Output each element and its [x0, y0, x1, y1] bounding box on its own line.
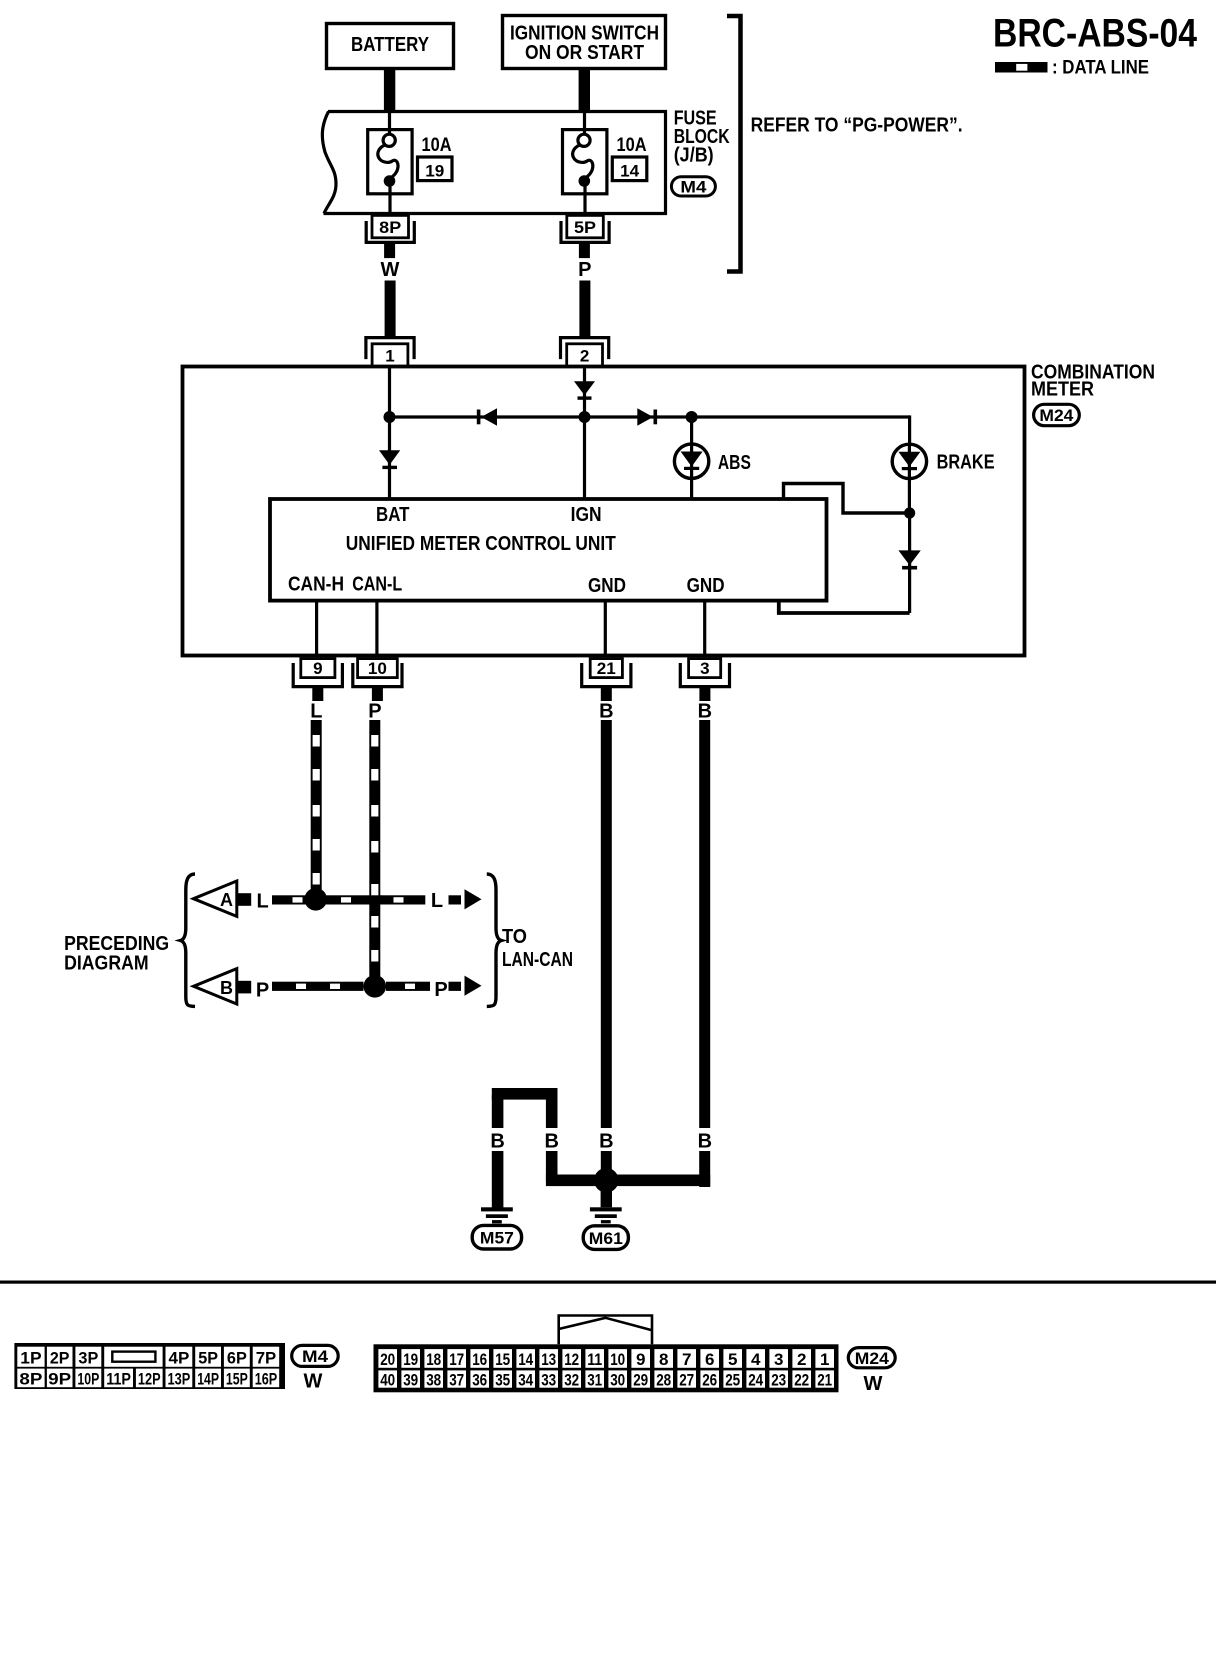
wire junction to abs lamp	[690, 417, 693, 445]
svg-text:31: 31	[587, 1370, 602, 1389]
connector 8P bracket	[366, 221, 414, 242]
connector M24 key bump	[559, 1316, 652, 1345]
svg-text:32: 32	[564, 1370, 579, 1389]
wire 8P stub	[384, 244, 395, 258]
fuse number box 19	[418, 157, 453, 181]
wire can-h pin	[315, 601, 318, 656]
diode bat pointing down	[379, 450, 400, 465]
svg-text:8P: 8P	[19, 1369, 42, 1388]
triangle arrow A	[194, 881, 237, 916]
svg-text:14: 14	[518, 1350, 533, 1369]
connector 2 box	[567, 344, 603, 367]
wire data line L vertical	[311, 720, 322, 899]
svg-text:METER: METER	[1031, 378, 1095, 400]
wire gnd pin left	[604, 601, 607, 656]
wire bus corner to brake lamp	[908, 415, 911, 445]
svg-text:22: 22	[794, 1370, 809, 1389]
connector M24 table oval	[848, 1348, 895, 1368]
svg-text:3: 3	[774, 1350, 783, 1369]
fuse F19	[368, 130, 412, 194]
battery box	[327, 24, 454, 69]
fuse block outline	[324, 112, 666, 214]
wire B from 3 upper	[699, 720, 710, 1128]
svg-text:B: B	[599, 1130, 613, 1152]
fuse number box 14	[612, 157, 647, 181]
svg-text:10P: 10P	[77, 1369, 99, 1388]
wire W to connector 1	[385, 281, 396, 338]
svg-text:(J/B): (J/B)	[674, 145, 714, 167]
wire B from 3 lower	[699, 1151, 710, 1187]
svg-text:10A: 10A	[617, 135, 647, 156]
svg-text:IGN: IGN	[571, 504, 602, 526]
svg-text:4: 4	[751, 1350, 761, 1369]
node junction brake	[904, 507, 915, 518]
connector 2 bracket	[561, 338, 609, 360]
svg-text:5P: 5P	[198, 1349, 218, 1368]
wire pin1 to bus	[388, 367, 391, 418]
svg-text:17: 17	[449, 1350, 464, 1369]
svg-text:14P: 14P	[197, 1369, 219, 1388]
fuse F19 wire bottom	[388, 184, 391, 214]
svg-text:DIAGRAM: DIAGRAM	[64, 953, 149, 975]
svg-text:TO: TO	[502, 926, 527, 948]
svg-text:M24: M24	[1039, 406, 1074, 425]
svg-text:ON OR START: ON OR START	[525, 42, 644, 64]
svg-text:B: B	[698, 701, 712, 723]
svg-text:35: 35	[495, 1370, 510, 1389]
svg-text:W: W	[381, 259, 400, 281]
svg-text:9: 9	[636, 1350, 645, 1369]
diode brake pointing down	[898, 550, 920, 565]
svg-text:B: B	[698, 1130, 712, 1152]
fuse F19 wire top	[388, 112, 391, 138]
svg-text:21: 21	[597, 659, 616, 678]
svg-text:37: 37	[449, 1370, 464, 1389]
svg-text:GND: GND	[588, 575, 626, 597]
connector pin 3	[680, 663, 729, 687]
diode on bus pointing left	[477, 410, 481, 425]
ground M61	[590, 1207, 622, 1211]
svg-text:6: 6	[705, 1350, 714, 1369]
svg-text:16: 16	[472, 1350, 487, 1369]
connector 8P box	[372, 215, 409, 237]
wire 5P stub	[579, 244, 590, 258]
svg-text:3: 3	[700, 659, 709, 678]
wire data line row B left segment	[272, 982, 364, 991]
connector table M4 pins	[14, 1343, 285, 1389]
svg-text:29: 29	[633, 1370, 648, 1389]
ignition switch box	[503, 16, 666, 69]
svg-text:12: 12	[564, 1350, 579, 1369]
wire hook left leg upper	[492, 1095, 504, 1128]
svg-text:39: 39	[403, 1370, 418, 1389]
svg-text:10: 10	[610, 1350, 625, 1369]
node junction bus-left	[384, 411, 396, 423]
svg-text:REFER TO “PG-POWER”.: REFER TO “PG-POWER”.	[751, 115, 963, 137]
ground M57	[481, 1207, 513, 1211]
svg-text:15: 15	[495, 1350, 510, 1369]
combination meter box	[183, 367, 1025, 656]
brace right lan-can	[487, 874, 502, 1006]
svg-text:34: 34	[518, 1370, 533, 1389]
svg-text:23: 23	[771, 1370, 786, 1389]
legend data-line sample bar	[995, 62, 1048, 73]
svg-text:38: 38	[426, 1370, 441, 1389]
svg-text:1P: 1P	[20, 1349, 41, 1368]
svg-text:B: B	[544, 1130, 558, 1152]
svg-text:P: P	[256, 980, 269, 1002]
connector M4 oval label	[671, 177, 715, 196]
svg-text:13: 13	[541, 1350, 556, 1369]
svg-text:P: P	[434, 979, 447, 1001]
arrow to lan-can row B	[449, 982, 462, 991]
svg-text:4P: 4P	[169, 1349, 190, 1368]
svg-text:19: 19	[403, 1350, 418, 1369]
svg-text:BAT: BAT	[376, 504, 410, 526]
svg-text:3P: 3P	[78, 1349, 98, 1368]
wire data line row A left segment	[272, 895, 382, 904]
wire bottom return to unit	[779, 601, 910, 613]
svg-text:7P: 7P	[256, 1349, 277, 1368]
svg-text:24: 24	[748, 1370, 763, 1389]
svg-text:14: 14	[620, 161, 640, 180]
svg-text:11: 11	[587, 1350, 602, 1369]
svg-text:LAN-CAN: LAN-CAN	[502, 949, 573, 971]
node junction can-l splice	[364, 975, 387, 998]
svg-text:10A: 10A	[422, 135, 452, 156]
svg-text:28: 28	[656, 1370, 671, 1389]
svg-text:M57: M57	[480, 1228, 514, 1247]
wire junction to m61	[601, 1180, 612, 1207]
svg-text:1: 1	[385, 347, 394, 366]
svg-text:11P: 11P	[106, 1369, 131, 1388]
svg-text:16P: 16P	[255, 1369, 278, 1388]
svg-text:10: 10	[368, 659, 387, 678]
svg-text:M61: M61	[589, 1229, 623, 1248]
triangle arrow B	[194, 969, 237, 1004]
svg-text:1: 1	[820, 1350, 829, 1369]
svg-text:BRAKE: BRAKE	[937, 452, 995, 474]
arrow to lan-can row A	[449, 895, 462, 904]
node junction abs	[686, 411, 698, 423]
svg-text:CAN-L: CAN-L	[352, 574, 402, 596]
connector 1 box	[372, 344, 408, 367]
svg-text:27: 27	[679, 1370, 694, 1389]
wire brake lamp to junction	[908, 478, 911, 513]
svg-text:BATTERY: BATTERY	[351, 34, 430, 56]
svg-text:L: L	[431, 890, 443, 912]
wire hook right leg upper	[546, 1095, 558, 1128]
wire P to connector 2	[579, 281, 590, 338]
wire bus horizontal	[390, 415, 910, 418]
svg-text:M4: M4	[680, 177, 707, 196]
wire hook right leg lower	[546, 1151, 558, 1181]
svg-text:M24: M24	[855, 1349, 890, 1368]
node junction ground	[594, 1168, 619, 1193]
svg-text:8: 8	[659, 1350, 668, 1369]
lamp BRAKE	[892, 444, 926, 478]
svg-text:: DATA LINE: : DATA LINE	[1052, 58, 1149, 79]
svg-text:5P: 5P	[574, 218, 596, 237]
svg-text:B: B	[599, 701, 613, 723]
svg-text:L: L	[310, 701, 322, 723]
wire data line row B right segment	[386, 982, 430, 991]
node junction can-h splice	[304, 888, 327, 911]
svg-text:GND: GND	[687, 575, 725, 597]
svg-text:A: A	[220, 890, 233, 910]
svg-text:W: W	[863, 1373, 882, 1395]
connector 5P box	[567, 215, 604, 237]
node junction pin2-bus	[579, 411, 591, 423]
connector M4 table oval	[292, 1345, 339, 1366]
svg-text:2: 2	[580, 347, 589, 366]
wire data line P vertical	[369, 720, 380, 986]
lamp ABS	[674, 444, 708, 478]
svg-text:33: 33	[541, 1370, 556, 1389]
unified meter control unit box	[270, 499, 827, 601]
svg-text:18: 18	[426, 1350, 441, 1369]
svg-text:36: 36	[472, 1370, 487, 1389]
svg-text:5: 5	[728, 1350, 737, 1369]
svg-text:IGNITION SWITCH: IGNITION SWITCH	[510, 23, 659, 45]
svg-text:26: 26	[702, 1370, 717, 1389]
connector 5P bracket	[561, 221, 609, 242]
fuse F14 wire top	[583, 112, 586, 138]
svg-text:20: 20	[380, 1350, 395, 1369]
wire hook left leg lower	[492, 1151, 504, 1209]
wire stub from B	[237, 981, 251, 994]
svg-text:30: 30	[610, 1370, 625, 1389]
wire data line row A right segment	[380, 895, 425, 904]
svg-text:2: 2	[797, 1350, 806, 1369]
svg-text:9: 9	[313, 659, 322, 678]
connector M24 oval label	[1034, 404, 1080, 425]
svg-text:W: W	[304, 1371, 323, 1393]
svg-text:UNIFIED METER CONTROL UNIT: UNIFIED METER CONTROL UNIT	[346, 533, 616, 555]
svg-text:P: P	[578, 259, 591, 281]
svg-text:21: 21	[817, 1370, 832, 1389]
wire abs lamp to unit	[690, 478, 693, 498]
wire ignition to fuse block	[579, 68, 590, 112]
svg-text:2P: 2P	[50, 1349, 70, 1368]
fuse F14 wire bottom	[583, 184, 586, 214]
wire can-l pin	[375, 601, 378, 656]
wire B from 21 upper	[601, 720, 612, 1128]
wire junction to bat pin	[388, 417, 391, 498]
wire B from 21 lower	[601, 1151, 612, 1187]
brace left preceding diagram	[181, 874, 196, 1006]
connector table M24 pins	[374, 1344, 839, 1392]
svg-text:13P: 13P	[168, 1369, 191, 1388]
connector 1 bracket	[366, 338, 414, 360]
wire gnd pin right	[703, 601, 706, 656]
wire battery to fuse block	[384, 68, 395, 112]
connector pin 10	[353, 663, 402, 687]
svg-text:12P: 12P	[138, 1369, 161, 1388]
connector pin 9	[293, 663, 342, 687]
svg-text:B: B	[490, 1130, 504, 1152]
svg-text:7: 7	[682, 1350, 691, 1369]
svg-text:9P: 9P	[48, 1369, 71, 1388]
wire stub from A	[237, 893, 251, 906]
svg-text:8P: 8P	[379, 218, 401, 237]
svg-text:L: L	[256, 890, 268, 912]
svg-text:19: 19	[425, 161, 444, 180]
svg-text:B: B	[220, 978, 233, 998]
svg-text:6P: 6P	[227, 1349, 247, 1368]
connector pin 21	[582, 663, 631, 687]
wire hook top	[492, 1088, 558, 1100]
svg-text:25: 25	[725, 1370, 740, 1389]
svg-text:15P: 15P	[226, 1369, 248, 1388]
svg-text:P: P	[368, 701, 381, 723]
svg-text:40: 40	[380, 1370, 395, 1389]
svg-text:M4: M4	[302, 1347, 329, 1366]
wire brake junction down	[908, 513, 911, 613]
svg-text:BRC-ABS-04: BRC-ABS-04	[993, 12, 1198, 56]
svg-text:ABS: ABS	[718, 452, 751, 474]
diode on bus pointing right	[637, 408, 653, 425]
svg-text:CAN-H: CAN-H	[288, 574, 344, 596]
wire pin2 down	[583, 367, 586, 498]
wire ground bus	[546, 1175, 710, 1187]
fuse F14	[563, 130, 607, 194]
bracket refer to pg-power	[727, 16, 741, 272]
separator line	[0, 1281, 1216, 1284]
diode under pin2 pointing down	[574, 381, 595, 395]
wire step path unit top to brake junction	[784, 484, 910, 514]
